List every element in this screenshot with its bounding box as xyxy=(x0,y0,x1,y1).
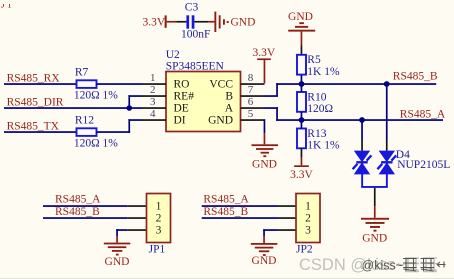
svg-text:3.3V: 3.3V xyxy=(290,169,313,181)
svg-text:2: 2 xyxy=(305,213,311,225)
svg-text:3.3V: 3.3V xyxy=(143,17,166,29)
bottom edge shading xyxy=(0,278,454,279)
ground GND (below JP1) xyxy=(104,236,131,267)
wire R5 to B row xyxy=(301,75,303,84)
power port 3.3V (above pin 8) xyxy=(252,47,275,83)
diode D4a (TVS pair left) xyxy=(353,151,372,175)
wire A row xyxy=(276,119,443,121)
wire R12 up-jog to pin4 xyxy=(97,131,131,133)
wire pin5 down xyxy=(264,119,266,133)
svg-text:3: 3 xyxy=(150,96,156,108)
wire pin7 to B row xyxy=(265,83,278,97)
wire GND to R5 xyxy=(301,46,303,56)
wire JP1 pin3 to ground xyxy=(116,229,146,236)
wire DIR horizontal xyxy=(4,107,142,109)
junction DIR node xyxy=(127,105,133,111)
resistor R13 xyxy=(297,128,340,152)
wire JP1 pin2 xyxy=(43,217,127,219)
pin 2 RE# xyxy=(142,84,194,102)
svg-text:1K 1%: 1K 1% xyxy=(307,66,340,78)
wire DIR up-jog to pin2 xyxy=(128,95,130,108)
svg-text:B: B xyxy=(225,91,233,103)
wire B row xyxy=(276,83,436,85)
svg-text:6: 6 xyxy=(248,96,254,108)
wire C3 to GND xyxy=(194,21,208,23)
pin 6 A xyxy=(225,96,265,114)
svg-text:VCC: VCC xyxy=(209,79,233,91)
pin 5 GND xyxy=(208,108,264,126)
pin 1 RO xyxy=(142,72,189,90)
wire B junction down to D4 right xyxy=(386,84,388,140)
junction R5/B row xyxy=(299,81,305,87)
wire JP2 pin3 to ground xyxy=(263,229,296,237)
power port 3.3V (left of C3) xyxy=(143,15,177,28)
svg-text:RS485_A: RS485_A xyxy=(400,108,446,120)
ground GND (right of C3, rotated) xyxy=(208,12,255,32)
power port 3.3V (below R13) xyxy=(290,157,313,181)
svg-text:R12: R12 xyxy=(75,115,94,127)
svg-text:5: 5 xyxy=(248,108,254,120)
wire A junction down to D4 left xyxy=(361,120,363,140)
connector JP1 xyxy=(147,194,171,256)
svg-text:3: 3 xyxy=(156,225,162,237)
svg-text:4: 4 xyxy=(150,108,156,120)
svg-text:2: 2 xyxy=(156,213,162,225)
svg-text:A: A xyxy=(225,103,234,115)
svg-text:120Ω 1%: 120Ω 1% xyxy=(74,89,118,101)
svg-text:RS485_A: RS485_A xyxy=(55,194,101,206)
watermark CSDN grey xyxy=(299,256,437,274)
junction A row / D4 xyxy=(359,117,365,123)
svg-text:RS485_A: RS485_A xyxy=(203,194,249,206)
svg-text:GND: GND xyxy=(252,255,277,267)
wire pin6 to A row xyxy=(265,107,278,121)
svg-text:1K 1%: 1K 1% xyxy=(307,140,340,152)
svg-text:NUP2105L: NUP2105L xyxy=(397,159,450,171)
junction B row / D4 xyxy=(384,81,390,87)
svg-text:120Ω 1%: 120Ω 1% xyxy=(74,137,118,149)
pin 3 DE xyxy=(142,96,189,114)
svg-text:RS485_TX: RS485_TX xyxy=(7,121,60,133)
wire RX to R7 xyxy=(4,83,77,85)
svg-text:7: 7 xyxy=(248,84,254,96)
resistor R12 xyxy=(74,115,118,150)
svg-text:@kiss~: @kiss~ xyxy=(362,259,404,273)
ground GND (below pin 5) xyxy=(252,133,279,170)
designator J1 fragment (clipped at top edge) xyxy=(0,0,20,11)
svg-text:RS485_B: RS485_B xyxy=(55,206,100,218)
wire B row to R10 xyxy=(301,84,303,92)
wire TX to R12 xyxy=(4,131,77,133)
ground GND (below D4) xyxy=(361,206,389,244)
wire A row to R13 xyxy=(301,120,303,129)
resistor R10 xyxy=(297,91,333,115)
watermark dark overlay xyxy=(362,259,446,273)
resistor R5 xyxy=(297,54,340,78)
svg-text:JP2: JP2 xyxy=(296,243,313,255)
ground GND (below JP2) xyxy=(251,237,277,267)
svg-text:GND: GND xyxy=(252,158,277,170)
svg-text:RE#: RE# xyxy=(174,91,195,103)
svg-text:GND: GND xyxy=(362,232,387,244)
svg-text:RS485_B: RS485_B xyxy=(203,206,248,218)
svg-text:C3: C3 xyxy=(185,1,199,13)
svg-text:DI: DI xyxy=(174,115,186,127)
svg-text:2: 2 xyxy=(150,84,156,96)
resistor R7 xyxy=(74,67,118,102)
pin 8 VCC xyxy=(209,72,264,90)
svg-text:3: 3 xyxy=(305,225,311,237)
svg-text:R10: R10 xyxy=(307,91,326,103)
wire R7 to pin1 xyxy=(97,83,143,85)
connector JP2 xyxy=(296,194,320,256)
svg-text:U2: U2 xyxy=(166,49,180,61)
svg-text:SP3485EEN: SP3485EEN xyxy=(166,60,225,72)
svg-text:RS485_B: RS485_B xyxy=(393,71,438,83)
svg-text:120Ω: 120Ω xyxy=(307,103,333,115)
capacitor C3 xyxy=(186,15,194,28)
svg-text:RS485_DIR: RS485_DIR xyxy=(7,97,64,109)
svg-text:1: 1 xyxy=(156,201,162,213)
svg-text:JP1: JP1 xyxy=(149,243,166,255)
svg-text:R13: R13 xyxy=(307,128,326,140)
svg-text:RS485_RX: RS485_RX xyxy=(7,73,61,85)
svg-text:GND: GND xyxy=(208,115,233,127)
wire JP1 pin1 xyxy=(43,205,127,207)
op chip U2 SP3485EEN xyxy=(166,49,241,131)
pin 4 DI xyxy=(142,108,186,126)
ground GND (top, above R5) xyxy=(288,11,315,46)
pin 7 B xyxy=(225,84,264,102)
svg-text:RO: RO xyxy=(174,79,190,91)
svg-text:GND: GND xyxy=(231,17,256,29)
svg-text:3.3V: 3.3V xyxy=(252,47,275,59)
svg-text:R7: R7 xyxy=(75,67,89,79)
wire R10 to A row xyxy=(301,112,303,120)
svg-text:1: 1 xyxy=(150,72,156,84)
wire JP2 pin2 xyxy=(202,217,278,219)
svg-text:GND: GND xyxy=(288,11,313,23)
svg-text:8: 8 xyxy=(248,72,254,84)
wire D4 to ground xyxy=(374,188,376,206)
svg-text:1: 1 xyxy=(305,201,311,213)
junction R10/A row xyxy=(299,117,305,123)
wire R13 down xyxy=(301,148,303,157)
svg-text:R5: R5 xyxy=(307,54,321,66)
svg-text:DE: DE xyxy=(174,103,189,115)
wire D4 bottoms joined xyxy=(361,174,388,188)
wire JP2 pin1 xyxy=(202,205,278,207)
diode D4b (TVS pair right) xyxy=(377,151,396,175)
wire 3.3V to C3 xyxy=(176,21,186,23)
svg-text:GND: GND xyxy=(105,256,130,268)
svg-text:100nF: 100nF xyxy=(181,29,210,41)
